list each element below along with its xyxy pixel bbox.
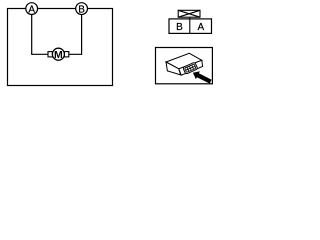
svg-text:B: B	[78, 4, 85, 15]
illustration frame	[156, 48, 213, 84]
connector pin box B|A	[169, 19, 212, 34]
motor left terminal	[48, 52, 52, 57]
svg-text:M: M	[54, 49, 63, 61]
circuit frame	[8, 9, 113, 86]
terminal probe A	[26, 3, 38, 15]
connector socket with pins	[183, 62, 198, 74]
pin box divider	[189, 17, 191, 33]
wire from terminal A down to motor	[32, 14, 49, 54]
arrow pointer	[193, 71, 212, 83]
connector body front face	[166, 62, 181, 75]
svg-text:A: A	[197, 22, 204, 33]
svg-text:B: B	[176, 22, 183, 33]
motor M	[52, 48, 64, 60]
connector body right face	[179, 60, 203, 75]
connector body top face	[166, 53, 202, 69]
motor right terminal	[64, 52, 68, 57]
wire from terminal B down to motor	[69, 14, 82, 54]
terminal probe B	[76, 3, 88, 15]
svg-text:A: A	[28, 4, 35, 15]
connector symbol (crossed box)	[178, 10, 200, 17]
